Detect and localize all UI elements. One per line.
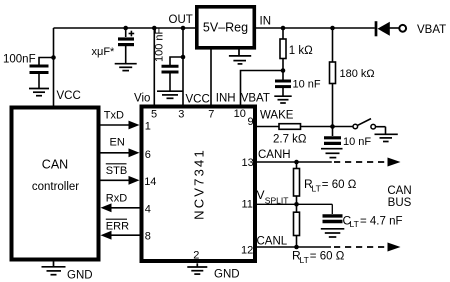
svg-text:NCV7341: NCV7341 (192, 148, 207, 220)
svg-text:STB: STB (106, 165, 127, 177)
wire VBAT pin10 riser (241, 71, 284, 105)
svg-text:VCC: VCC (57, 90, 81, 102)
node Vio riser top (152, 26, 157, 31)
svg-text:1: 1 (145, 121, 151, 133)
signal TxD pin1 (101, 110, 140, 130)
wire VCC riser pin3 (182, 28, 184, 105)
svg-text:= 60 Ω: = 60 Ω (322, 179, 357, 191)
signal RxD pin4 (101, 192, 140, 212)
regulator 5V-Reg (197, 7, 255, 48)
svg-text:VBAT: VBAT (241, 93, 270, 105)
ground under 10nF WAKE (321, 149, 343, 158)
svg-text:WAKE: WAKE (260, 110, 294, 122)
svg-text:EN: EN (110, 137, 125, 149)
arrow CANL bus (388, 243, 401, 252)
signal STB pin14 (101, 164, 140, 185)
svg-text:LT: LT (312, 183, 321, 193)
ground under xuF (115, 64, 137, 71)
wire INH riser pin7 (210, 50, 212, 105)
svg-text:GND: GND (214, 269, 240, 281)
terminal VBAT (399, 25, 406, 32)
svg-text:4: 4 (145, 204, 151, 216)
svg-text:2: 2 (193, 250, 199, 262)
node VCC riser top (181, 26, 186, 31)
IC U2 CAN controller (12, 108, 99, 260)
svg-text:CANH: CANH (258, 149, 291, 161)
svg-text:100nF: 100nF (3, 54, 36, 66)
svg-text:2.7 kΩ: 2.7 kΩ (273, 134, 307, 146)
svg-text:CANL: CANL (257, 236, 288, 248)
diode D1 (376, 21, 399, 36)
svg-text:ERR: ERR (106, 220, 129, 232)
node xuF top (123, 26, 128, 31)
signal ERR pin8 (101, 219, 140, 239)
node 180k top (330, 26, 335, 31)
svg-text:10 nF: 10 nF (293, 79, 321, 91)
arrow CANH bus (388, 158, 401, 167)
svg-text:5V–Reg: 5V–Reg (203, 21, 248, 35)
capacitor 10nF at WAKE (324, 127, 341, 144)
node 100nF mid stub (181, 55, 186, 60)
svg-text:1 kΩ: 1 kΩ (289, 45, 313, 57)
wire CANH pin13 (257, 161, 332, 163)
signal EN pin6 (101, 137, 140, 158)
resistor RLT upper 60 ohm (294, 162, 300, 204)
svg-text:V: V (257, 188, 265, 202)
svg-text:CAN: CAN (42, 158, 68, 172)
svg-text:xμF*: xμF* (92, 46, 116, 58)
svg-text:RxD: RxD (106, 192, 127, 204)
resistor R 2.7k (279, 124, 301, 130)
svg-text:CAN: CAN (387, 185, 411, 197)
node WAKE junction (330, 124, 335, 129)
IC U1 NCV7341 (142, 107, 256, 262)
svg-text:VBAT: VBAT (417, 24, 446, 36)
svg-text:TxD: TxD (104, 110, 124, 122)
ground under 10nF VBAT (274, 96, 291, 103)
svg-text:10 nF: 10 nF (343, 136, 371, 148)
svg-text:100 nF: 100 nF (154, 27, 166, 62)
capacitor CLT 4.7nF (323, 204, 343, 221)
capacitor C 100nF left (30, 58, 54, 89)
ground under middle 100nF (157, 91, 183, 98)
svg-text:180 kΩ: 180 kΩ (340, 68, 375, 80)
switch S1 (353, 119, 386, 135)
svg-text:INH: INH (216, 93, 236, 105)
ground at switch (375, 134, 398, 141)
wire VCC top rail (54, 27, 196, 29)
node 100nF stub (51, 55, 56, 60)
svg-text:= 60 Ω: = 60 Ω (310, 251, 345, 263)
svg-text:VCC: VCC (186, 94, 210, 106)
svg-text:LT: LT (300, 255, 309, 265)
svg-text:= 4.7 nF: = 4.7 nF (360, 215, 403, 227)
capacitor 10nF at VBAT pin (275, 71, 291, 96)
svg-text:10: 10 (234, 108, 246, 120)
node CANH RLT (294, 160, 299, 165)
node VBAT RC (281, 68, 286, 73)
wire CANL pin12 (257, 246, 331, 248)
svg-text:11: 11 (242, 199, 253, 211)
capacitor 100nF middle (Vio) (162, 57, 184, 91)
svg-text:6: 6 (145, 149, 151, 161)
svg-text:SPLIT: SPLIT (265, 195, 289, 205)
resistor R 180k (330, 28, 336, 127)
wire IN net (256, 27, 375, 29)
ground CAN controller (42, 262, 66, 275)
wire WAKE pin9 (257, 126, 279, 128)
svg-text:9: 9 (248, 116, 254, 128)
ground under 100nF left (29, 89, 49, 96)
node VSPLIT (294, 202, 299, 207)
resistor RLT lower 60 ohm (294, 204, 300, 247)
svg-text:3: 3 (178, 109, 184, 121)
wire VCC riser to CAN controller (53, 28, 55, 106)
svg-text:13: 13 (242, 157, 254, 169)
wire Vio riser pin5 (153, 28, 155, 105)
node CANL RLT (294, 245, 299, 250)
ground under CLT (321, 229, 345, 237)
ground under 5V-Reg (229, 50, 251, 64)
svg-text:14: 14 (144, 176, 156, 188)
resistor R 1k (280, 28, 286, 71)
svg-text:BUS: BUS (388, 197, 412, 209)
capacitor xuF* electrolytic (118, 28, 134, 63)
ground pin2 NCV7341 (187, 263, 207, 274)
svg-text:OUT: OUT (169, 14, 193, 26)
svg-text:7: 7 (208, 109, 214, 121)
svg-text:5: 5 (151, 109, 157, 121)
svg-text:12: 12 (241, 245, 253, 257)
svg-text:GND: GND (67, 270, 93, 282)
svg-text:8: 8 (145, 231, 151, 243)
svg-text:Vio: Vio (134, 93, 150, 105)
node 1k top (281, 26, 286, 31)
svg-text:controller: controller (32, 181, 79, 193)
wire VSPLIT pin11 (257, 203, 332, 205)
svg-text:LT: LT (350, 219, 359, 229)
svg-text:IN: IN (260, 16, 272, 28)
